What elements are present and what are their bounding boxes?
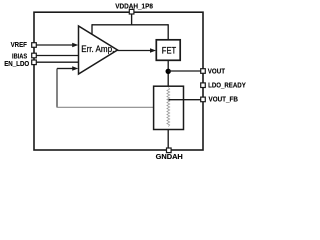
pin VOUT_FB — [201, 94, 238, 103]
svg-text:GNDAH: GNDAH — [156, 152, 183, 161]
svg-text:VOUT_FB: VOUT_FB — [209, 94, 238, 103]
wire EN_LDO to amp — [36, 61, 78, 63]
pin VREF — [11, 40, 37, 49]
wire IBIAS to amp — [36, 55, 78, 57]
wire divider bottom to GNDAH — [167, 130, 169, 150]
wire feedback vertical drop — [56, 69, 58, 108]
wire junction to VOUT pin — [168, 70, 201, 72]
transistor FET block — [156, 40, 180, 61]
pin EN_LDO — [4, 59, 36, 68]
svg-text:VOUT: VOUT — [208, 66, 226, 75]
wire feedback horizontal to divider block — [57, 106, 154, 108]
wire VDDAH pin drop — [131, 13, 133, 25]
pin GNDAH — [156, 148, 183, 161]
pin VOUT — [201, 66, 226, 75]
svg-text:FET: FET — [162, 45, 177, 55]
wire VDDAH rail drop to amp — [91, 24, 93, 35]
wire divider tap to VOUT_FB pin — [169, 99, 202, 101]
wire feedback into amp (horizontal with arrow) — [57, 66, 78, 70]
IC boundary box — [34, 12, 203, 150]
svg-text:VDDAH_1P8: VDDAH_1P8 — [115, 2, 153, 11]
pin LDO_READY — [201, 80, 246, 89]
wire amp output to FET (with arrow) — [118, 48, 157, 52]
wire FET down to divider — [167, 60, 169, 86]
pin VDDAH_1P8 — [115, 2, 153, 15]
svg-text:Err. Amp.: Err. Amp. — [81, 44, 114, 55]
wire VDDAH rail drop to FET — [167, 24, 169, 40]
svg-text:LDO_READY: LDO_READY — [208, 80, 246, 89]
svg-text:VREF: VREF — [11, 40, 28, 49]
wire VDDAH rail — [92, 24, 168, 26]
wire VREF to amp — [36, 43, 78, 47]
node junction dot at VOUT — [166, 69, 171, 74]
pin IBIAS — [12, 52, 36, 61]
svg-text:EN_LDO: EN_LDO — [4, 59, 29, 68]
op-amp Err. Amp. — [79, 26, 118, 74]
resistor divider block — [154, 86, 184, 129]
